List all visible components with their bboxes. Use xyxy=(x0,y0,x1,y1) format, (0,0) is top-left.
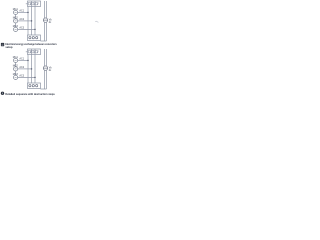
svg-text:Detailed sequence with destruc: Detailed sequence with destruction steps xyxy=(5,92,55,96)
svg-text:Electrical energy exchange bet: Electrical energy exchange between conve… xyxy=(5,42,57,46)
svg-text:setup: setup xyxy=(5,45,13,49)
